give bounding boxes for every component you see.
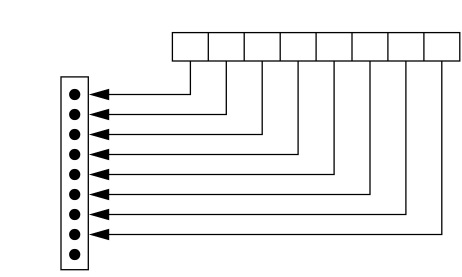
dot 2 (69, 109, 80, 120)
dot 8 (69, 229, 80, 240)
cell divider 5 (351, 33, 353, 61)
dot 9 (69, 249, 80, 260)
cell divider 4 (315, 33, 317, 61)
dot 1 (69, 89, 80, 100)
arrowhead 4 (90, 149, 109, 160)
dot 5 (69, 169, 80, 180)
arrowhead 3 (90, 129, 109, 140)
dot 3 (69, 129, 80, 140)
cell divider 3 (279, 33, 281, 61)
arrowhead 2 (90, 109, 109, 120)
wire 1 (cell 1 to dot 1) (108, 61, 190, 95)
wire 7 (cell 7 to dot 7) (108, 61, 406, 215)
arrowhead 7 (90, 209, 109, 220)
dot 7 (69, 209, 80, 220)
cell divider 1 (207, 33, 209, 61)
cell divider 6 (387, 33, 389, 61)
arrowhead 8 (90, 229, 109, 240)
wire 8 (cell 8 to dot 8) (108, 61, 442, 235)
wire 3 (cell 3 to dot 3) (108, 61, 262, 135)
wire 5 (cell 5 to dot 5) (108, 61, 334, 175)
register box (8-cell row) (172, 33, 459, 61)
wire 6 (cell 6 to dot 6) (108, 61, 370, 195)
arrowhead 6 (90, 189, 109, 200)
wire 2 (cell 2 to dot 2) (108, 61, 226, 115)
cell divider 2 (243, 33, 245, 61)
wire 4 (cell 4 to dot 4) (108, 61, 298, 155)
arrowhead 5 (90, 169, 109, 180)
list box (vertical) (61, 77, 88, 270)
dot 4 (69, 149, 80, 160)
dot 6 (69, 189, 80, 200)
cell divider 7 (423, 33, 425, 61)
arrowhead 1 (90, 89, 109, 100)
